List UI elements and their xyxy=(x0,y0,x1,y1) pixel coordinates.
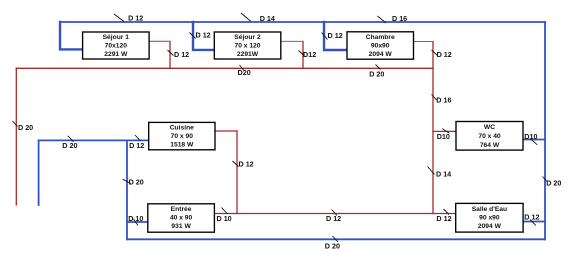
svg-text:D 10: D 10 xyxy=(217,214,232,223)
svg-text:2291 W: 2291 W xyxy=(104,51,128,58)
svg-text:D 10: D 10 xyxy=(128,214,143,223)
svg-text:70x120: 70x120 xyxy=(105,43,128,50)
svg-text:2094 W: 2094 W xyxy=(478,223,502,230)
svg-text:D 12: D 12 xyxy=(328,31,343,40)
svg-text:D 20: D 20 xyxy=(369,70,384,79)
svg-text:D 20: D 20 xyxy=(62,141,77,150)
svg-text:2291W: 2291W xyxy=(237,51,259,58)
svg-text:D 12: D 12 xyxy=(128,14,143,23)
svg-text:Entrée: Entrée xyxy=(171,206,192,213)
svg-text:D 12: D 12 xyxy=(129,141,144,150)
svg-text:70 x 120: 70 x 120 xyxy=(234,43,260,50)
svg-text:D 20: D 20 xyxy=(546,178,561,187)
svg-text:931 W: 931 W xyxy=(171,223,191,230)
svg-text:2094 W: 2094 W xyxy=(369,51,393,58)
svg-text:D 12: D 12 xyxy=(437,50,452,59)
svg-text:D 20: D 20 xyxy=(18,123,33,132)
svg-text:D12: D12 xyxy=(303,50,316,59)
svg-text:70 x 40: 70 x 40 xyxy=(478,133,501,140)
svg-text:D 12: D 12 xyxy=(196,31,211,40)
svg-text:90x90: 90x90 xyxy=(371,43,390,50)
svg-text:D 12: D 12 xyxy=(174,50,189,59)
svg-text:D 12: D 12 xyxy=(326,214,341,223)
svg-text:D 12: D 12 xyxy=(524,213,539,222)
svg-text:40 x 90: 40 x 90 xyxy=(170,215,193,222)
svg-text:D 20: D 20 xyxy=(325,242,340,251)
svg-text:Salle d'Eau: Salle d'Eau xyxy=(472,206,507,213)
svg-text:D 14: D 14 xyxy=(436,170,451,179)
svg-text:D 16: D 16 xyxy=(436,95,451,104)
svg-text:D 16: D 16 xyxy=(392,14,407,23)
svg-text:D10: D10 xyxy=(524,132,537,141)
svg-text:90 x90: 90 x90 xyxy=(479,215,500,222)
svg-text:D10: D10 xyxy=(437,132,450,141)
svg-text:Séjour 2: Séjour 2 xyxy=(234,34,261,41)
svg-text:764 W: 764 W xyxy=(480,142,500,149)
svg-text:D 14: D 14 xyxy=(260,14,275,23)
svg-text:D20: D20 xyxy=(238,68,251,77)
svg-text:1518 W: 1518 W xyxy=(170,142,194,149)
svg-text:Cuisine: Cuisine xyxy=(170,125,194,132)
svg-text:Séjour 1: Séjour 1 xyxy=(103,34,130,41)
svg-text:D 12: D 12 xyxy=(436,214,451,223)
svg-text:Chambre: Chambre xyxy=(366,34,395,41)
svg-text:D 20: D 20 xyxy=(129,177,144,186)
svg-text:70 x 90: 70 x 90 xyxy=(171,133,194,140)
svg-text:D 12: D 12 xyxy=(239,160,254,169)
svg-text:WC: WC xyxy=(484,124,495,131)
